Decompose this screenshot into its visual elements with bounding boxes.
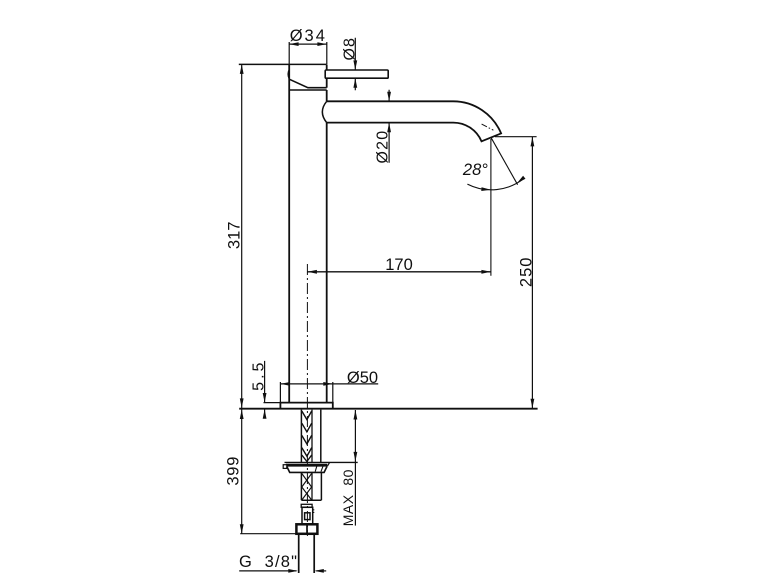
arrow Ø20 top [387,92,391,102]
svg-text:MAX 80: MAX 80 [340,469,356,526]
washer hatch marks [315,466,323,471]
dimension Ø8 line [354,38,356,91]
svg-text:5.5: 5.5 [251,360,268,391]
mounting flange [280,403,332,409]
dimension 317/399 line [241,64,243,533]
arrow Ø8 bottom [353,78,357,88]
svg-text:170: 170 [385,256,413,274]
arrow G3/8 right [314,569,324,573]
svg-text:Ø50: Ø50 [347,369,378,387]
lever back bump on left edge [288,70,289,79]
arrow 250 bottom [531,399,535,409]
lower shank middle line [311,472,313,500]
cap right edge [326,64,328,87]
dimension 250 top extension line [495,136,537,138]
svg-text:Ø8: Ø8 [342,37,359,60]
arrow 399 top [240,410,244,420]
washer trapezoid skirt [287,467,327,473]
spout outlet dash-dot centerline [482,124,494,130]
svg-text:250: 250 [517,257,535,288]
arrow 28deg at slant line [516,176,526,185]
countertop surface line [239,408,537,410]
spout-body intersection arc [322,101,326,122]
dimension MAX80 line [354,410,356,526]
washer left tab [283,465,287,469]
arrow Ø50 left [280,382,290,386]
angle 28 slant leg [491,137,518,184]
arrow MAX80 bottom [354,452,358,462]
supply pipe right edge [320,410,322,462]
dimension Ø50 extension lines [280,382,332,403]
dimension 170 line [307,271,491,273]
svg-text:Ø34: Ø34 [290,27,327,45]
check valve inner square [305,513,310,520]
arrow G3/8 left [288,569,298,573]
arrow 28deg at vertical line [481,187,491,191]
threaded shank middle line [311,410,313,462]
lever handle bar [325,70,388,78]
arrow 5.5 top [263,393,267,403]
nut face dividing line [306,524,308,534]
angle 28 arc [467,178,524,190]
arrow 170 right [481,270,491,274]
body top seam line [289,89,327,91]
thread chevron pattern [302,411,312,462]
dimension 250 line [531,137,533,408]
arrow Ø20 bottom [387,123,391,133]
washer thick band [286,464,327,467]
dimension Ø20 line [388,90,390,163]
check valve body [302,507,313,524]
faucet body left edge [288,64,290,402]
dimension 399 bottom extension line [240,533,296,535]
body right edge (interrupted by spout) [326,90,328,403]
spout outlet extension line down to 170 [490,139,492,276]
lower shank left edge [300,472,302,500]
connection nut [296,524,317,534]
arrow 317 bottom [240,398,244,408]
arrow Ø8 top [353,60,357,70]
check valve right notch [313,510,315,513]
washer right end slant [327,462,329,466]
cap slanted bottom joint [290,79,327,87]
svg-text:Ø20: Ø20 [375,130,392,164]
svg-text:399: 399 [225,456,243,486]
check valve top cap [301,504,312,507]
arrow Ø50 right [323,382,333,386]
dimension 5.5 line [264,361,266,417]
arrow 250 top [531,137,535,147]
arrow 5.5 bottom [263,409,267,419]
dimension Ø50 line [280,383,378,385]
arrow MAX80 top [354,410,358,420]
spout tube outline with end face [327,101,501,141]
faucet cap top edge with left extension line to 317 dimension [239,63,327,65]
washer top plate + MAX80 extension line [285,461,358,463]
dimension G3/8 line right [316,570,326,572]
faucet vertical centerline [306,264,308,536]
arrow Ø34 right [317,42,327,46]
dimension Ø34 line [289,43,327,45]
arrow 399 bottom [240,524,244,534]
threaded shank left edge below deck [300,410,302,462]
G3/8 inlet tube [299,534,315,573]
dimension G3/8 line left [239,570,296,572]
svg-text:G 3/8": G 3/8" [239,553,298,571]
svg-text:317: 317 [225,222,243,250]
dimension Ø34 extension lines [289,42,327,64]
shank bottom end line [301,499,321,501]
arrow Ø34 left [289,42,299,46]
dimension 5.5 extension line [264,402,281,404]
lower shank X thread pattern [302,474,312,501]
lower pipe right edge [320,472,322,500]
arrow 317 top [240,64,244,74]
arrow 170 left [307,270,317,274]
svg-text:28°: 28° [462,161,488,179]
